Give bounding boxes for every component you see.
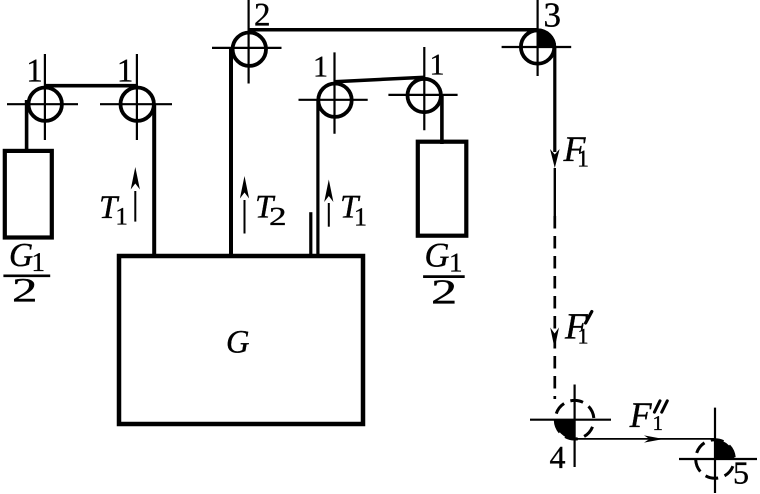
svg-text:1: 1 xyxy=(578,324,589,349)
pulley 1 (top-left first) xyxy=(7,54,78,140)
weight block G1/2 (left) xyxy=(5,151,52,238)
svg-text:1: 1 xyxy=(115,204,128,231)
wire rope between middle pulleys 1-1 xyxy=(334,77,425,82)
label T2 xyxy=(255,190,287,232)
pulley 2 xyxy=(212,0,282,84)
pulley 1 (middle-left) xyxy=(299,52,368,133)
arrow T1 (left) xyxy=(131,167,140,222)
wire rope from pulley 2 down to block G xyxy=(229,49,233,256)
pulley 4 (dashed) xyxy=(530,385,611,468)
label T1 (left) xyxy=(99,190,128,231)
pulley 1 (top-left second) xyxy=(100,54,172,140)
dashed rope F1' xyxy=(554,168,556,216)
wire rope over pulleys 1-1 xyxy=(45,84,137,88)
svg-text:G: G xyxy=(226,325,249,361)
svg-text:F: F xyxy=(629,395,653,435)
wire rope from middle-right pulley 1 down to weight G1/2 xyxy=(440,96,444,145)
svg-text:2: 2 xyxy=(12,272,38,309)
pulley 1 (middle-right) xyxy=(388,47,457,130)
arrow T1 (middle) xyxy=(324,180,333,227)
svg-text:1: 1 xyxy=(313,51,328,84)
wire rope stub attached to block G xyxy=(309,212,312,256)
label F1' xyxy=(564,306,592,348)
arrow F1 (rope from pulley 3 down) xyxy=(550,47,560,168)
wire rope from second pulley 1 down to block G xyxy=(152,104,156,256)
svg-text:1: 1 xyxy=(430,48,445,81)
svg-text:1: 1 xyxy=(354,202,367,231)
block G xyxy=(119,256,363,424)
svg-text:2: 2 xyxy=(431,273,457,312)
svg-text:2: 2 xyxy=(269,202,287,231)
svg-text:1: 1 xyxy=(653,411,664,435)
pulley 3 xyxy=(502,0,572,76)
pulley 5 (dashed) xyxy=(679,408,757,493)
arrow T2 xyxy=(240,176,249,234)
svg-text:5: 5 xyxy=(733,455,749,491)
svg-text:1: 1 xyxy=(577,147,589,173)
wire rope from first pulley 1 down to weight G1/2 xyxy=(25,100,29,153)
label G1/2 (left fraction) xyxy=(3,237,50,309)
label F1 xyxy=(563,129,590,173)
svg-text:3: 3 xyxy=(544,0,562,35)
svg-text:4: 4 xyxy=(550,439,566,475)
arrow F1'' (rope from pulley 4 to pulley 5) xyxy=(575,435,715,442)
weight block G1/2 (right) xyxy=(418,142,467,236)
label F1'' xyxy=(629,395,668,435)
arrow F1' head xyxy=(550,328,559,349)
wire rope from middle-left pulley 1 down to block G xyxy=(316,100,319,256)
svg-text:1: 1 xyxy=(26,53,43,89)
svg-text:G: G xyxy=(425,237,450,275)
label T1 (middle) xyxy=(340,190,367,232)
label G1/2 (right fraction) xyxy=(423,237,465,312)
svg-text:G: G xyxy=(9,237,33,274)
wire rope from pulley 2 to pulley 3 xyxy=(249,28,538,32)
